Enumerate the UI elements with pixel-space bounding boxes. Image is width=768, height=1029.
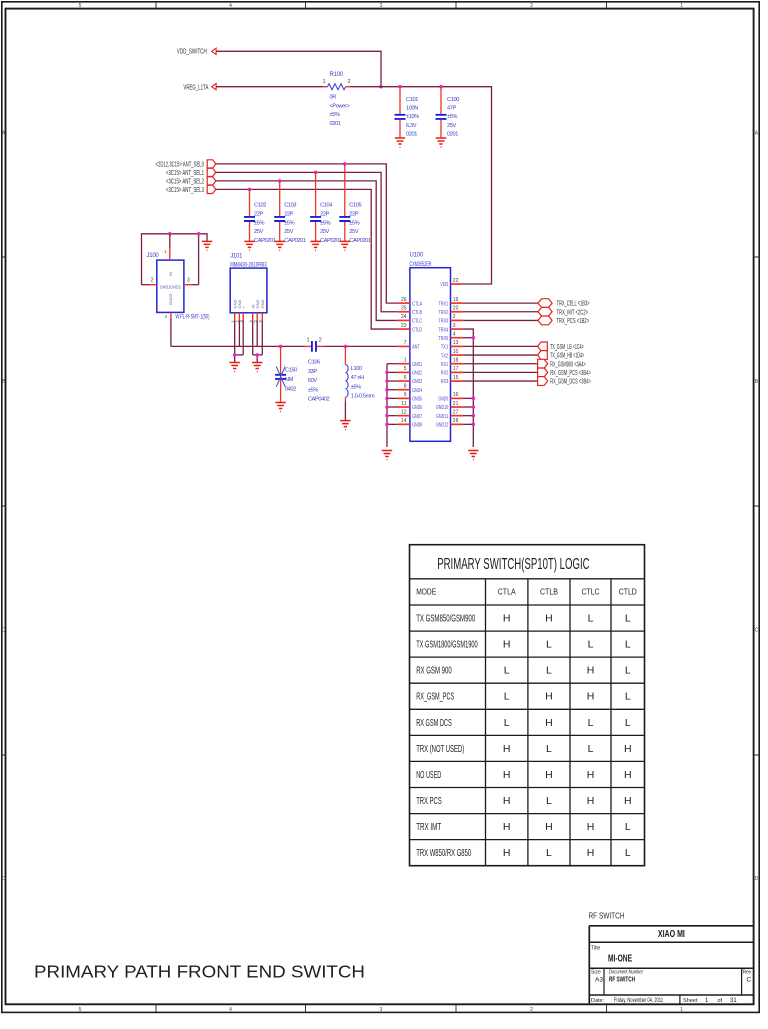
ground J101 right [252, 363, 262, 372]
svg-text:L: L [546, 847, 552, 859]
svg-text:Date:: Date: [591, 998, 605, 1004]
svg-text:RX_GSM_PCS: RX_GSM_PCS [416, 691, 454, 703]
ground C104 [310, 241, 320, 250]
svg-text:14: 14 [401, 418, 407, 424]
svg-text:C103: C103 [284, 203, 296, 209]
svg-text:TX2: TX2 [441, 353, 448, 359]
svg-text:CTLD: CTLD [619, 588, 637, 597]
svg-text:22P: 22P [284, 211, 294, 217]
connector J100 [142, 234, 210, 321]
junction C104 tap on ANT_SEL1 [314, 171, 318, 175]
svg-text:L: L [504, 665, 510, 677]
port TX_GSM_LB [538, 342, 584, 351]
wire VREG_L1TA to U100 VDD [351, 87, 492, 284]
junction right bus row 13 [472, 414, 476, 418]
svg-text:8: 8 [404, 384, 407, 390]
wire VREG_L1TA to R100 [216, 86, 322, 88]
junction GND bus left row 14 [385, 423, 389, 427]
svg-text:L: L [546, 795, 552, 807]
svg-text:0201: 0201 [447, 131, 458, 137]
svg-text:0402: 0402 [285, 387, 296, 393]
junction right bus row 12 [472, 405, 476, 409]
svg-text:L: L [625, 665, 631, 677]
ground C105 [340, 241, 350, 250]
svg-text:H: H [545, 717, 553, 729]
svg-text:RX1: RX1 [441, 362, 448, 368]
svg-text:13: 13 [453, 340, 459, 346]
svg-text:C106: C106 [308, 360, 320, 366]
wire ANT_SEL1 to U100 CTLB [216, 172, 398, 311]
svg-text:L: L [625, 691, 631, 703]
svg-text:H: H [503, 639, 511, 651]
svg-text:22P: 22P [320, 211, 330, 217]
ground J100 [202, 241, 212, 250]
svg-text:L: L [588, 639, 594, 651]
junction C150 tap [279, 345, 283, 349]
svg-text:22: 22 [453, 278, 459, 284]
svg-text:0R: 0R [330, 95, 337, 101]
wire TRX_CELL [463, 302, 538, 304]
svg-text:5: 5 [79, 3, 82, 9]
wire RX_GSM_PCS [463, 371, 538, 373]
svg-text:CTLC: CTLC [412, 319, 422, 325]
svg-text:H: H [545, 821, 553, 833]
svg-text:RX_GSM_DCS <3B4>: RX_GSM_DCS <3B4> [550, 379, 591, 386]
svg-text:<3C15> ANT_SEL3: <3C15> ANT_SEL3 [166, 187, 204, 194]
svg-text:11: 11 [401, 401, 406, 407]
net port ANT_SEL3 [166, 185, 216, 194]
junction C100 tap [439, 85, 443, 89]
capacitor C150 (NM) [275, 346, 297, 402]
svg-text:5: 5 [404, 366, 407, 372]
svg-text:19: 19 [453, 297, 459, 303]
capacitor C101 [395, 87, 420, 138]
svg-text:15: 15 [453, 375, 459, 381]
svg-text:±5%: ±5% [447, 114, 457, 120]
svg-text:1: 1 [680, 3, 683, 9]
svg-text:CTLC: CTLC [582, 588, 600, 597]
svg-text:RF SWITCH: RF SWITCH [609, 977, 635, 984]
junction GND bus left row 10 [385, 388, 389, 392]
svg-text:22P: 22P [254, 211, 264, 217]
svg-text:CAP0201: CAP0201 [349, 238, 371, 244]
svg-text:C150: C150 [285, 367, 297, 373]
svg-text:3: 3 [453, 323, 456, 329]
svg-text:TRX W850/RX G850: TRX W850/RX G850 [416, 847, 471, 859]
svg-text:H: H [545, 769, 553, 781]
junction VDD_SWITCH on VREG_L1TA [379, 85, 383, 89]
svg-text:H: H [587, 769, 595, 781]
svg-text:23: 23 [401, 323, 407, 329]
svg-text:C: C [755, 628, 759, 634]
svg-text:25V: 25V [349, 229, 359, 235]
svg-text:CAP0201: CAP0201 [284, 238, 306, 244]
svg-text:TRX PCS: TRX PCS [416, 795, 442, 807]
svg-text:25V: 25V [254, 229, 264, 235]
capacitor C102 [244, 189, 276, 244]
svg-text:D: D [755, 876, 759, 882]
svg-text:PRIMARY SWITCH(SP10T) LOGIC: PRIMARY SWITCH(SP10T) LOGIC [437, 556, 589, 573]
svg-text:2: 2 [453, 314, 456, 320]
svg-text:C100: C100 [447, 97, 459, 103]
svg-text:C: C [2, 628, 6, 634]
junction right bus row 11 [472, 397, 476, 401]
svg-text:9: 9 [404, 392, 407, 398]
svg-text:RX GSM 900: RX GSM 900 [416, 665, 452, 677]
svg-text:Document Number: Document Number [609, 970, 643, 976]
svg-text:<3C15> ANT_SEL1: <3C15> ANT_SEL1 [166, 170, 204, 177]
junction GND bus left row 12 [385, 405, 389, 409]
svg-text:L: L [588, 613, 594, 625]
svg-text:2: 2 [348, 79, 351, 85]
junction right bus row 4 [472, 336, 476, 340]
junction GND bus left row 11 [385, 397, 389, 401]
svg-text:4: 4 [453, 332, 456, 338]
svg-text:6: 6 [404, 375, 407, 381]
svg-text:H: H [503, 795, 511, 807]
svg-text:MI-ONE: MI-ONE [608, 953, 632, 965]
svg-text:0201: 0201 [406, 131, 417, 137]
svg-text:2: 2 [530, 3, 533, 9]
svg-text:R100: R100 [330, 72, 344, 78]
junction J101 gnd right [255, 353, 259, 357]
svg-text:L: L [625, 847, 631, 859]
inductor L100 [345, 346, 375, 420]
svg-text:H: H [587, 847, 595, 859]
svg-text:±5%: ±5% [320, 220, 330, 226]
wire J101 signal pins to ANT [239, 321, 257, 347]
svg-text:1: 1 [322, 79, 325, 85]
wire RX_GSM_DCS [463, 380, 538, 382]
svg-text:2: 2 [319, 338, 322, 344]
wire ANT_SEL3 to U100 CTLD [216, 189, 398, 329]
wire TRX_PCS [463, 319, 538, 321]
svg-text:J100: J100 [147, 253, 160, 259]
svg-text:TRX_PCS <1B2>: TRX_PCS <1B2> [557, 318, 590, 325]
port TRX_IMT [538, 307, 588, 316]
svg-text:12: 12 [401, 409, 407, 415]
junction C103 tap on ANT_SEL2 [278, 179, 282, 183]
svg-text:100N: 100N [406, 106, 418, 112]
ground U100 left [382, 451, 392, 460]
svg-text:27: 27 [453, 409, 459, 415]
svg-text:U100: U100 [410, 253, 424, 259]
connector J101 [230, 253, 267, 322]
svg-text:W.FL-R-SMT-1(50): W.FL-R-SMT-1(50) [176, 315, 210, 321]
svg-text:±5%: ±5% [351, 384, 361, 390]
svg-text:L: L [546, 743, 552, 755]
wire TRX_IMT [463, 311, 538, 313]
svg-text:H: H [587, 665, 595, 677]
svg-text:GND8: GND8 [412, 423, 422, 429]
svg-text:CXM3552ER: CXM3552ER [410, 262, 432, 268]
svg-text:TX GSM850/GSM900: TX GSM850/GSM900 [416, 613, 475, 625]
svg-text:GND3: GND3 [168, 293, 173, 305]
svg-text:±5%: ±5% [284, 220, 294, 226]
svg-text:TRX_CELL <1B3>: TRX_CELL <1B3> [557, 301, 590, 308]
wire J100 top net [142, 234, 208, 285]
svg-text:10: 10 [453, 349, 459, 355]
svg-text:A3: A3 [595, 977, 603, 984]
svg-text:Rev: Rev [743, 970, 752, 976]
svg-text:2: 2 [151, 278, 154, 284]
svg-text:L: L [625, 821, 631, 833]
svg-text:TRX IMT: TRX IMT [416, 821, 441, 833]
svg-text:H: H [624, 743, 632, 755]
svg-text:47P: 47P [447, 106, 457, 112]
svg-text:L: L [625, 613, 631, 625]
svg-text:H: H [503, 769, 511, 781]
junction GND bus left row 9 [385, 379, 389, 383]
svg-text:RX3: RX3 [441, 379, 448, 385]
svg-text:CTLB: CTLB [540, 588, 558, 597]
svg-text:H: H [545, 691, 553, 703]
svg-text:±5%: ±5% [308, 387, 318, 393]
svg-text:MM8430-2610RB3: MM8430-2610RB3 [230, 262, 267, 268]
svg-text:ANT: ANT [412, 345, 420, 351]
net port ANT_SEL0 [156, 160, 216, 169]
svg-text:Friday, November 04, 2011: Friday, November 04, 2011 [614, 997, 663, 1004]
svg-text:GND: GND [260, 300, 265, 309]
svg-text:0201: 0201 [330, 121, 341, 127]
port RX_GSM_PCS [538, 368, 591, 377]
svg-text:RX_GSM900 <3A4>: RX_GSM900 <3A4> [550, 361, 586, 368]
svg-text:31: 31 [730, 998, 737, 1004]
svg-text:25V: 25V [284, 229, 294, 235]
svg-text:NO USED: NO USED [416, 769, 441, 781]
svg-text:H: H [587, 691, 595, 703]
capacitor C104 [310, 172, 342, 244]
svg-text:H: H [503, 613, 511, 625]
net port ANT_SEL2 [166, 177, 216, 186]
svg-text:H: H [587, 795, 595, 807]
svg-text:L: L [504, 691, 510, 703]
svg-text:TX1: TX1 [441, 345, 448, 351]
svg-text:of: of [718, 998, 723, 1004]
svg-text:GND3: GND3 [412, 379, 422, 385]
svg-text:2: 2 [530, 1007, 533, 1013]
ground C101 [395, 138, 405, 147]
IC U100 CXM3552ER [398, 253, 463, 442]
svg-text:±5%: ±5% [330, 112, 340, 118]
net port VDD_SWITCH [177, 48, 216, 55]
svg-text:25: 25 [401, 306, 407, 312]
svg-text:±5%: ±5% [254, 220, 264, 226]
svg-text:GND11: GND11 [436, 414, 448, 420]
svg-text:22P: 22P [349, 211, 359, 217]
svg-text:25V: 25V [447, 123, 457, 129]
svg-text:Sheet: Sheet [683, 998, 698, 1004]
wire RX_GSM900 [463, 363, 538, 365]
port TX_GSM_HB [538, 351, 585, 360]
svg-text:RX_GSM_PCS <3B4>: RX_GSM_PCS <3B4> [550, 370, 591, 377]
svg-text:TRX3: TRX3 [438, 319, 448, 325]
capacitor C105 [339, 164, 371, 244]
svg-text:17: 17 [453, 366, 459, 372]
wire ANT_SEL0 to U100 CTLA [216, 164, 398, 303]
junction GND bus left row 8 [385, 371, 389, 375]
junction C102 tap on ANT_SEL3 [248, 188, 252, 192]
svg-text:<Power>: <Power> [330, 103, 350, 109]
wire ANT line [171, 345, 398, 347]
capacitor C100 [436, 87, 460, 138]
svg-text:±10%: ±10% [406, 114, 419, 120]
svg-text:C104: C104 [320, 203, 332, 209]
svg-text:C105: C105 [349, 203, 361, 209]
svg-text:L: L [546, 665, 552, 677]
ground L100 [340, 421, 350, 430]
svg-text:H: H [624, 769, 632, 781]
capacitor C106 [305, 338, 330, 403]
svg-text:TRX (NOT USED): TRX (NOT USED) [416, 743, 464, 755]
svg-text:RX2: RX2 [441, 371, 448, 377]
svg-text:NM: NM [285, 377, 294, 383]
svg-text:H: H [503, 821, 511, 833]
svg-text:25V: 25V [320, 229, 330, 235]
svg-text:TRX4: TRX4 [438, 327, 448, 333]
svg-text:<3C15> ANT_SEL2: <3C15> ANT_SEL2 [166, 179, 204, 186]
svg-text:<2D12,3C15> ANT_SEL0: <2D12,3C15> ANT_SEL0 [156, 162, 205, 169]
svg-text:TX_GSM_HB <1D4>: TX_GSM_HB <1D4> [550, 353, 584, 360]
svg-text:TX_GSM_LB <1C4>: TX_GSM_LB <1C4> [550, 344, 584, 351]
ground C100 [436, 138, 446, 147]
svg-text:L: L [625, 639, 631, 651]
svg-text:4: 4 [229, 1007, 232, 1013]
svg-text:Title: Title [591, 946, 600, 952]
wire J100 pin4 to ANT line [170, 319, 172, 346]
svg-text:H: H [624, 795, 632, 807]
ground J101 left [230, 363, 240, 372]
svg-text:GND7: GND7 [412, 414, 422, 420]
svg-text:VDD: VDD [440, 282, 448, 288]
svg-text:D: D [2, 876, 6, 882]
svg-text:H: H [545, 613, 553, 625]
ground C103 [275, 241, 285, 250]
svg-text:XIAO MI: XIAO MI [658, 929, 685, 940]
svg-text:MODE: MODE [416, 588, 436, 597]
junction C105 tap on ANT_SEL0 [343, 162, 347, 166]
svg-text:GND10: GND10 [436, 405, 448, 411]
logic table PRIMARY SWITCH(SP10T) LOGIC [410, 545, 645, 866]
junction right bus row 14 [472, 423, 476, 427]
svg-text:1.0-0.5mm: 1.0-0.5mm [351, 394, 375, 400]
svg-text:RX GSM DCS: RX GSM DCS [416, 717, 452, 729]
svg-text:1: 1 [680, 1007, 683, 1013]
svg-text:GND6: GND6 [412, 405, 422, 411]
svg-text:TRX_IMT <2C2>: TRX_IMT <2C2> [557, 309, 589, 316]
svg-text:L: L [588, 717, 594, 729]
svg-text:28: 28 [453, 418, 459, 424]
ground C102 [244, 241, 254, 250]
junction GND bus left row 13 [385, 414, 389, 418]
net port VREG_L1TA [183, 84, 216, 92]
wire VDD_SWITCH [216, 51, 381, 86]
svg-text:20: 20 [453, 306, 459, 312]
svg-text:24: 24 [401, 314, 407, 320]
svg-text:RF SWITCH: RF SWITCH [589, 910, 625, 920]
svg-text:C: C [747, 977, 752, 984]
svg-text:CTLA: CTLA [498, 588, 517, 597]
title block [589, 910, 754, 1004]
svg-text:TRX1: TRX1 [438, 301, 448, 307]
wire TX_GSM_HB [463, 354, 538, 356]
resistor R100 [322, 72, 350, 127]
svg-text:3: 3 [187, 278, 190, 284]
svg-text:CAP0201: CAP0201 [320, 238, 342, 244]
port RX_GSM900 [538, 359, 586, 368]
svg-text:21: 21 [453, 401, 459, 407]
wire J101 ground pins [235, 321, 263, 363]
svg-text:1: 1 [404, 358, 407, 364]
svg-text:GND2: GND2 [412, 371, 422, 377]
svg-text:L: L [504, 717, 510, 729]
svg-text:GND12: GND12 [436, 423, 448, 429]
svg-text:CTLA: CTLA [412, 301, 422, 307]
svg-text:GND1GND2: GND1GND2 [160, 284, 181, 289]
port TRX_PCS [538, 316, 589, 325]
svg-text:GND5: GND5 [412, 397, 422, 403]
svg-text:7: 7 [404, 340, 407, 346]
svg-text:6.3V: 6.3V [406, 123, 417, 129]
junction J101 gnd left [233, 353, 237, 357]
svg-text:3: 3 [380, 1007, 383, 1013]
wire U100 left GND bus [387, 364, 398, 447]
svg-text:PRIMARY PATH FRONT END SWITCH: PRIMARY PATH FRONT END SWITCH [34, 962, 365, 982]
ground U100 right [468, 451, 478, 460]
svg-text:3: 3 [380, 3, 383, 9]
svg-text:TRX5: TRX5 [438, 336, 448, 342]
svg-text:L100: L100 [351, 366, 362, 372]
svg-text:L: L [588, 743, 594, 755]
svg-text:GND9: GND9 [438, 397, 448, 403]
svg-text:33P: 33P [308, 369, 318, 375]
junction C101 tap [398, 85, 402, 89]
junction J100 pin3 riser [197, 232, 201, 236]
svg-text:H: H [503, 743, 511, 755]
svg-text:16: 16 [453, 392, 459, 398]
svg-text:1: 1 [306, 338, 309, 344]
svg-text:H: H [503, 847, 511, 859]
svg-text:4: 4 [229, 3, 232, 9]
wire TX_GSM_LB [463, 345, 538, 347]
port RX_GSM_DCS [538, 377, 591, 386]
port TRX_CELL [538, 299, 590, 308]
svg-text:TX GSM1800/GSM1900: TX GSM1800/GSM1900 [416, 639, 478, 651]
capacitor C103 [274, 181, 306, 244]
svg-text:TRX2: TRX2 [438, 310, 448, 316]
wire U100 right GND bus [463, 329, 473, 447]
net port ANT_SEL1 [166, 168, 216, 177]
svg-text:Size: Size [591, 970, 601, 976]
svg-text:H: H [587, 821, 595, 833]
svg-text:L: L [546, 639, 552, 651]
svg-text:5: 5 [79, 1007, 82, 1013]
junction J100 pin1 [168, 232, 172, 236]
svg-text:CAP0201: CAP0201 [254, 238, 276, 244]
svg-text:CAP0402: CAP0402 [308, 397, 330, 403]
ground C150 [275, 403, 285, 412]
junction L100 tap [344, 345, 348, 349]
wire ANT_SEL2 to U100 CTLC [216, 181, 398, 321]
svg-text:50V: 50V [308, 378, 318, 384]
svg-text:GND1: GND1 [412, 362, 422, 368]
svg-text:IN: IN [168, 272, 173, 276]
svg-text:CTLB: CTLB [412, 310, 422, 316]
svg-text:26: 26 [401, 297, 407, 303]
svg-text:GND4: GND4 [412, 388, 422, 394]
svg-text:VREG_L1TA: VREG_L1TA [183, 84, 208, 91]
svg-text:L: L [625, 717, 631, 729]
